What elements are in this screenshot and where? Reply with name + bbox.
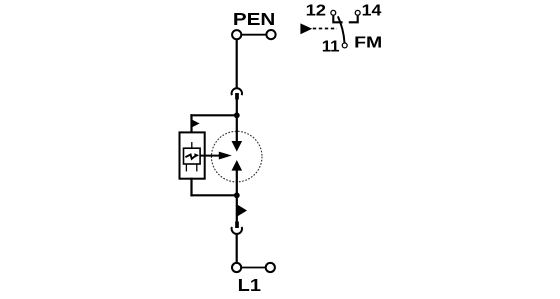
wire pin to top junction: [236, 99, 238, 117]
arrester pins bottom: [186, 164, 196, 171]
contact 14 fixed contact hook: [349, 16, 358, 23]
wire lower electrode to bottom junction: [236, 170, 238, 196]
wire L1 terminal link: [241, 267, 266, 269]
wire branch left vertical upper: [190, 114, 192, 133]
contact 14 terminal circle: [355, 10, 360, 15]
wire PEN down to plug-in socket: [236, 39, 238, 88]
terminal circle PEN left: [232, 30, 241, 39]
contact 12 fixed contact hook: [333, 16, 342, 23]
wire bottom junction down to pin: [236, 195, 238, 222]
svg-text:PEN: PEN: [233, 9, 276, 29]
spark gap lower electrode triangle: [232, 160, 243, 171]
plug-in connection bottom: socket arc: [232, 227, 242, 234]
wire top junction to upper electrode: [236, 115, 238, 142]
disconnect indicator triangle lower: [237, 204, 247, 216]
svg-text:L1: L1: [238, 276, 262, 296]
wire branch top horizontal: [190, 114, 236, 116]
disconnect indicator triangle upper: [192, 119, 200, 127]
spark gap upper electrode triangle: [232, 141, 243, 152]
wire socket to L1 terminal: [236, 234, 238, 263]
wire PEN terminal link: [241, 34, 266, 36]
svg-text:FM: FM: [354, 33, 382, 51]
terminal circle PEN right: [266, 30, 275, 39]
remote contact dashed actuator link: [313, 28, 337, 30]
trigger arrowhead: [219, 152, 232, 160]
arrester element square: [184, 148, 201, 164]
arrester lightning bolt: [185, 155, 196, 159]
plug-in connection top: pin: [235, 93, 239, 100]
svg-text:14: 14: [362, 2, 383, 20]
junction dot top: [234, 112, 240, 118]
plug-in connection bottom: pin: [235, 222, 239, 229]
arrester bolt arrowhead: [194, 153, 199, 157]
arrester pin top: [191, 142, 193, 149]
remote contact actuator arrow: [300, 23, 312, 34]
spark gap dashed circle: [211, 131, 262, 182]
contact 11 terminal circle: [342, 43, 347, 48]
contact movable blade: [338, 16, 345, 42]
plug-in connection top: socket arc: [232, 88, 242, 95]
junction dot bottom: [234, 192, 240, 198]
wire branch left vertical lower: [190, 178, 192, 197]
svg-text:11: 11: [322, 38, 340, 55]
terminal circle L1 left: [232, 263, 241, 272]
arrester housing rectangle: [180, 132, 205, 178]
trigger arrow line: [200, 155, 221, 157]
wire branch bottom horizontal: [190, 194, 236, 196]
contact 12 terminal circle: [331, 10, 336, 15]
svg-text:12: 12: [306, 2, 326, 19]
terminal circle L1 right: [266, 263, 275, 272]
